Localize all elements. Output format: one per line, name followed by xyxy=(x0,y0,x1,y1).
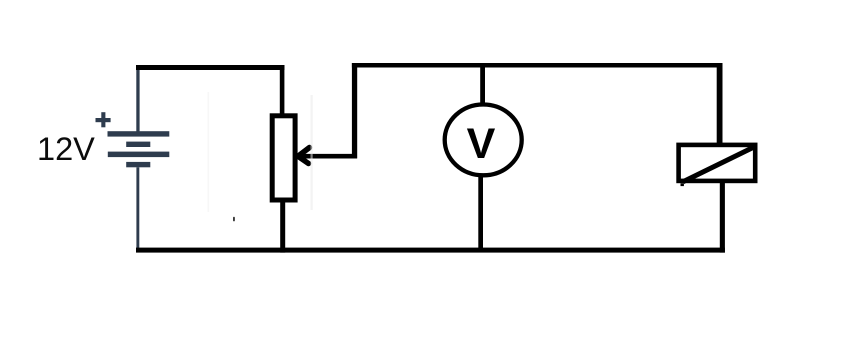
voltmeter V1 circle xyxy=(445,104,522,175)
battery B1 plate short bottom xyxy=(126,162,150,167)
wire top-right run (wiper to voltmeter to relay) xyxy=(352,63,723,68)
wire wiper riser xyxy=(352,63,357,158)
potentiometer wiper arrow xyxy=(298,148,357,164)
wire potentiometer top drop xyxy=(280,65,285,115)
stray tick mark xyxy=(233,217,235,222)
wire top-left run (battery top to potentiometer top) xyxy=(136,65,285,70)
battery B1 plate short xyxy=(126,142,150,147)
relay K1 diagonal stroke xyxy=(683,147,754,181)
battery B1 bottom lead wire xyxy=(136,167,139,249)
wire relay top drop xyxy=(717,63,723,144)
relay stray nub xyxy=(681,183,684,186)
faint smudge streak left of potentiometer xyxy=(208,92,210,212)
battery B1 top lead wire xyxy=(136,70,139,133)
relay K1 coil body xyxy=(679,145,756,181)
svg-text:V: V xyxy=(467,120,496,168)
faint smudge streak left of riser xyxy=(311,95,313,210)
potentiometer VR1 body xyxy=(272,116,295,200)
svg-text:12V: 12V xyxy=(37,131,95,167)
battery B1 plus sign xyxy=(96,112,111,127)
wire potentiometer bottom drop xyxy=(280,200,285,253)
wire relay bottom drop xyxy=(720,181,725,253)
battery B1 plate long xyxy=(108,152,170,158)
wire bottom run xyxy=(136,248,725,253)
wire voltmeter top drop xyxy=(480,63,485,105)
battery B1 plate long top xyxy=(108,131,170,136)
wire voltmeter bottom drop xyxy=(478,174,483,253)
